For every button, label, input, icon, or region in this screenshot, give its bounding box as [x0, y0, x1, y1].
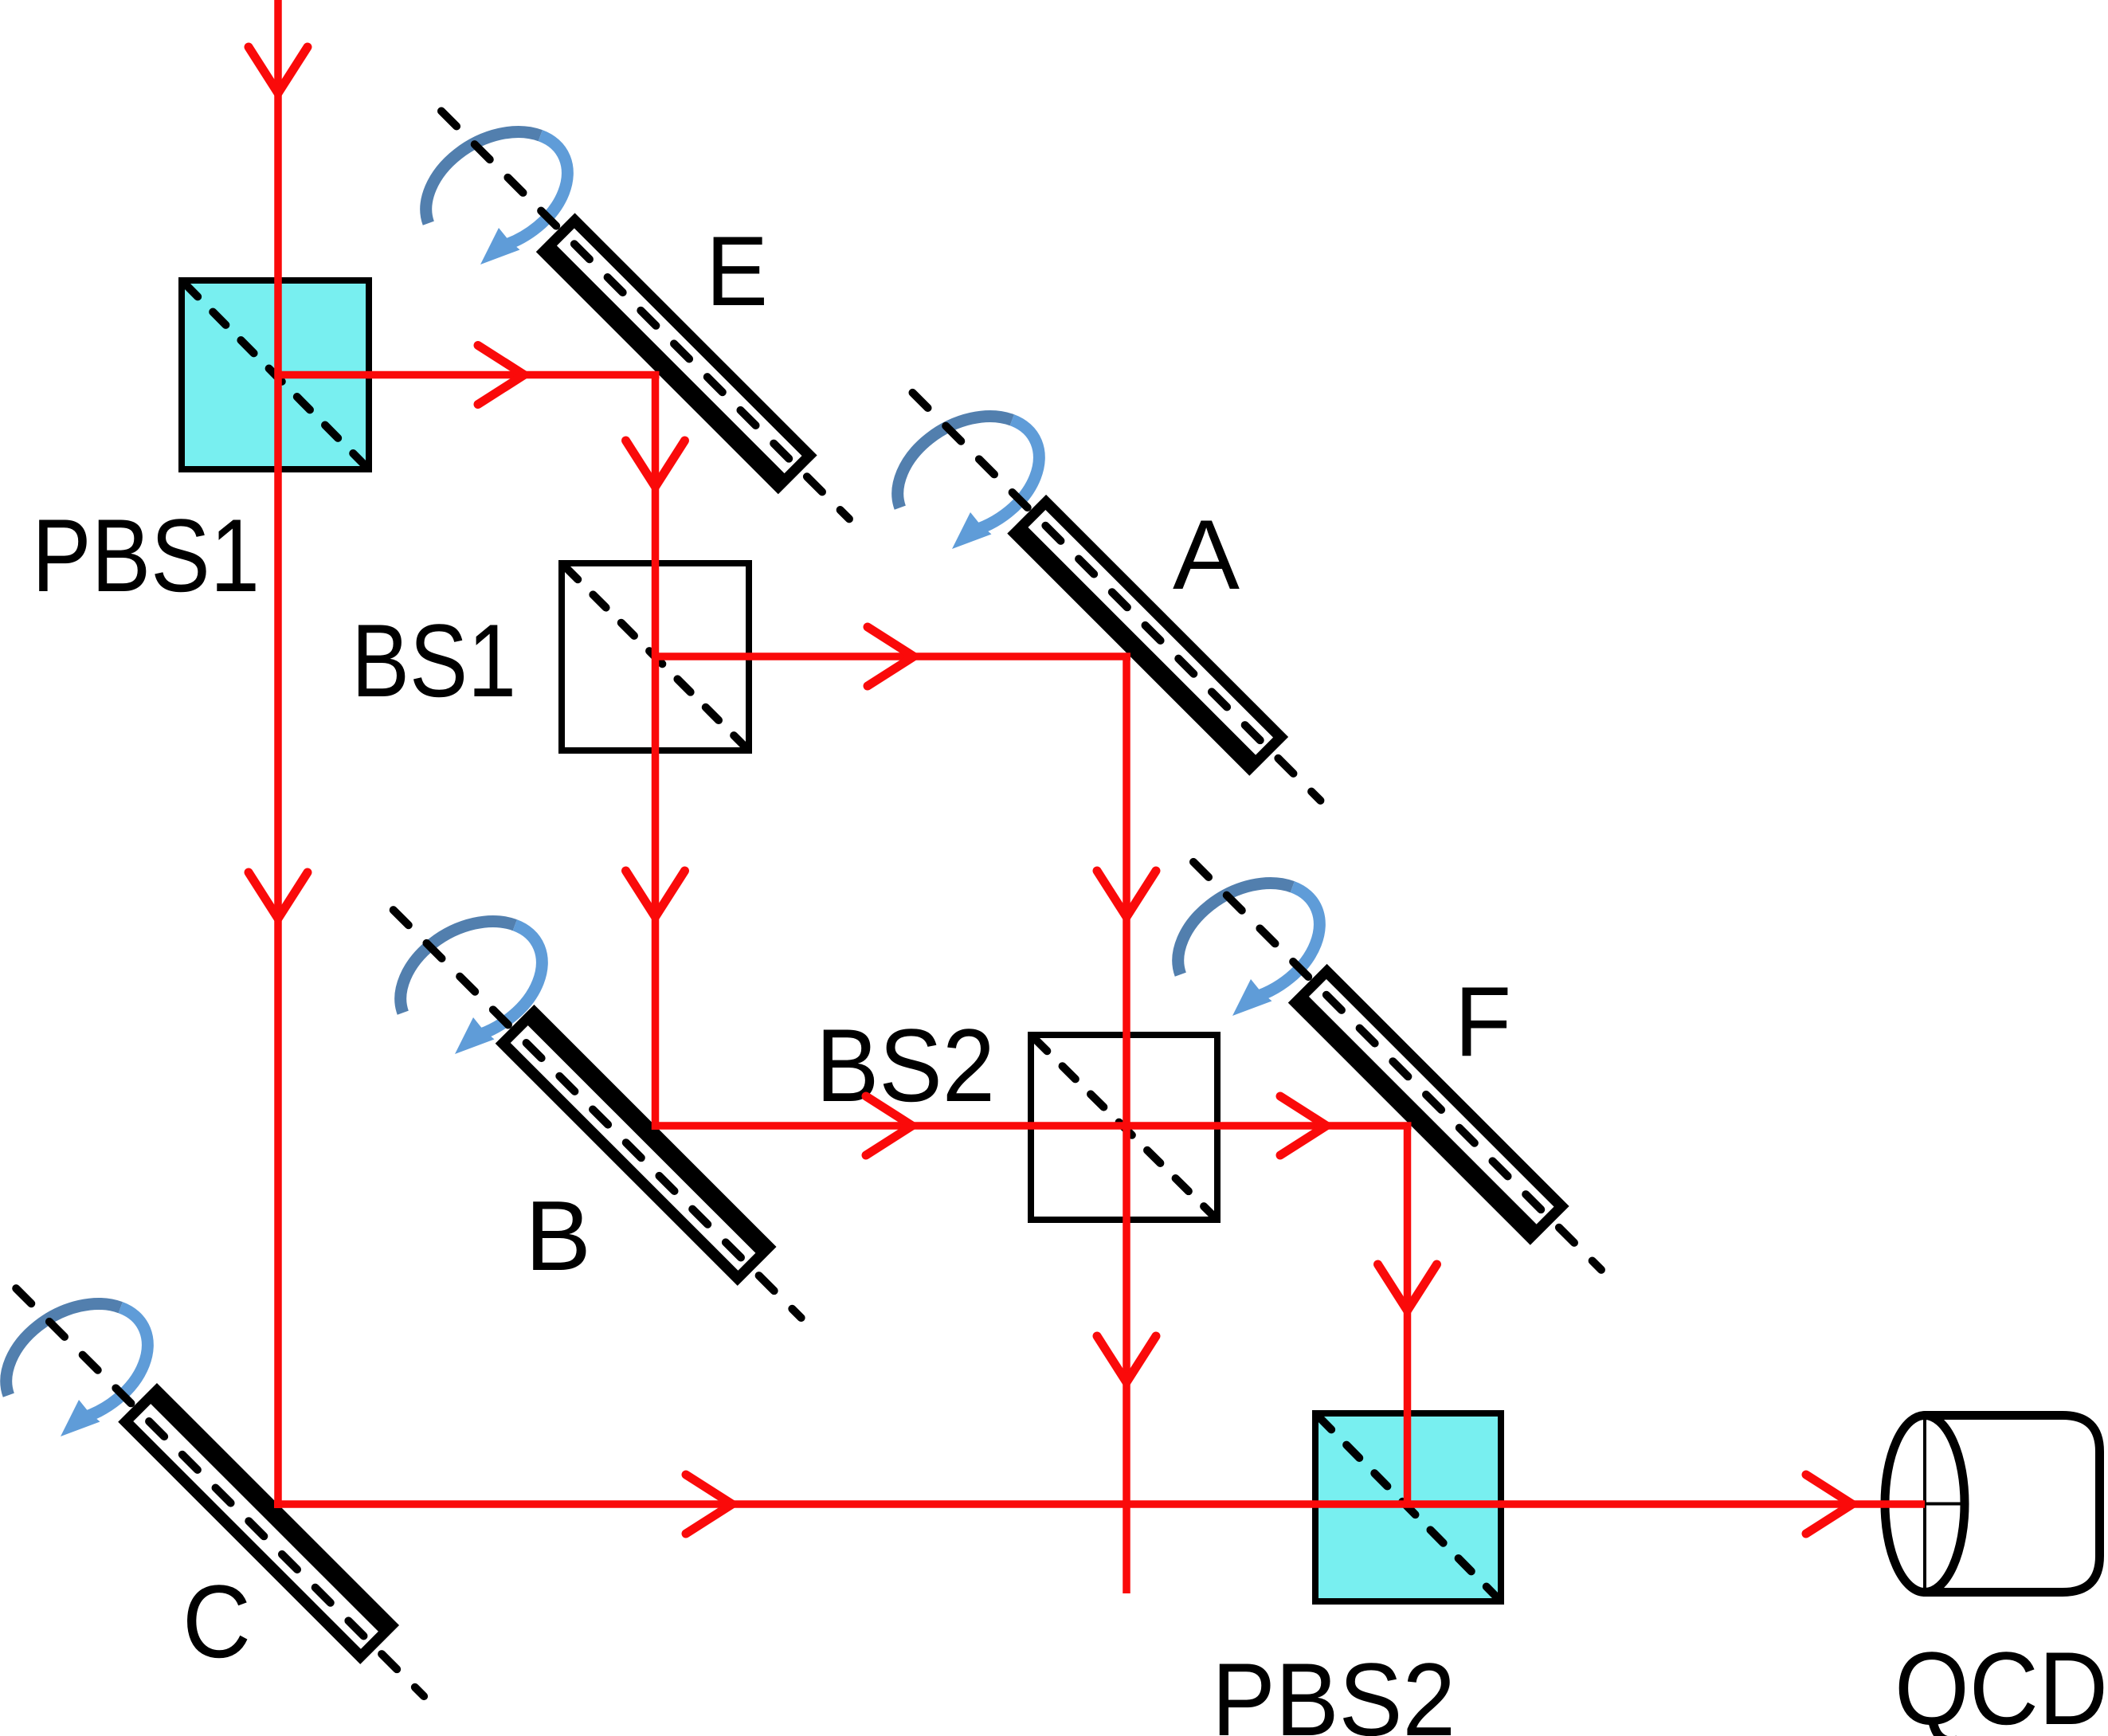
rotation axis dashes of mirror A	[912, 393, 1320, 801]
beam arrow BS1->A	[868, 627, 914, 686]
beam arrow F->PBS2	[1378, 1264, 1437, 1311]
mirror A	[1007, 495, 1288, 776]
beam arrow on line between PBS1 and C	[249, 872, 308, 919]
beamsplitter cube BS2	[1031, 1035, 1217, 1220]
rotation arrow (front arc) of mirror F	[1232, 887, 1319, 1016]
rotation arrow (front arc) of mirror C	[61, 1307, 147, 1436]
beam arrow BS2->down	[1097, 1336, 1156, 1382]
rotation axis dashes of mirror E	[441, 111, 849, 519]
beam: PBS1 to mirror E horizontal	[278, 371, 660, 379]
svg-text:PBS2: PBS2	[1212, 1641, 1456, 1736]
rotation axis dashes of mirror B	[394, 910, 801, 1318]
svg-text:F: F	[1455, 967, 1511, 1077]
rotation arrow (back arc) of mirror B	[401, 922, 515, 1013]
rotation arrow (back arc) of mirror F	[1178, 884, 1293, 975]
mirror C	[118, 1383, 399, 1664]
svg-text:BS1: BS1	[351, 602, 516, 719]
svg-text:A: A	[1173, 500, 1240, 610]
beam: mirror B through BS2 to mirror F horizontal	[656, 1122, 1412, 1130]
svg-text:C: C	[182, 1563, 251, 1679]
beam: mirror E down through BS1 to mirror B	[652, 375, 660, 1131]
svg-text:PBS1: PBS1	[32, 497, 260, 613]
rotation arrow (back arc) of mirror C	[6, 1304, 121, 1396]
svg-text:BS2: BS2	[816, 1007, 995, 1123]
beam arrow PBS1->E	[478, 346, 524, 405]
beam arrow BS2->F	[1280, 1096, 1326, 1155]
beam: mirror C through PBS2 to detector QCD	[274, 1500, 1925, 1508]
svg-text:B: B	[525, 1181, 591, 1291]
beam arrow A->BS2	[1097, 871, 1156, 917]
beam arrow B->BS2	[866, 1096, 912, 1155]
mirror E	[536, 213, 817, 494]
beamsplitter cube PBS1	[182, 280, 369, 469]
svg-text:QCD: QCD	[1894, 1630, 2108, 1736]
beam arrow BS1->B	[626, 871, 685, 917]
beam: input vertical line into PBS1 down to mirror C	[274, 0, 282, 1508]
beam arrow PBS2->QCD	[1806, 1475, 1852, 1534]
rotation arrow (back arc) of mirror E	[426, 132, 541, 224]
rotation arrow (front arc) of mirror A	[952, 420, 1039, 549]
beam arrow C->PBS2	[686, 1475, 732, 1534]
beam: mirror F down to PBS2	[1404, 1126, 1412, 1504]
beam arrow on input line above PBS1	[249, 47, 308, 93]
rotation axis dashes of mirror C	[16, 1288, 424, 1696]
beam: mirror A down through BS2 to below	[1123, 656, 1130, 1593]
mirror B	[496, 1005, 777, 1286]
beamsplitter cube PBS2	[1315, 1413, 1501, 1601]
beam: BS1 to mirror A horizontal	[656, 652, 1131, 660]
svg-text:E: E	[706, 217, 768, 327]
detector QCD cylinder	[1885, 1416, 2100, 1593]
rotation arrow (front arc) of mirror B	[455, 925, 542, 1054]
beam arrow E->BS1	[626, 441, 685, 487]
beamsplitter cube BS1	[562, 563, 749, 750]
mirror F	[1288, 964, 1569, 1245]
rotation arrow (back arc) of mirror A	[898, 417, 1013, 508]
rotation arrow (front arc) of mirror E	[480, 135, 567, 265]
rotation axis dashes of mirror F	[1193, 862, 1601, 1270]
